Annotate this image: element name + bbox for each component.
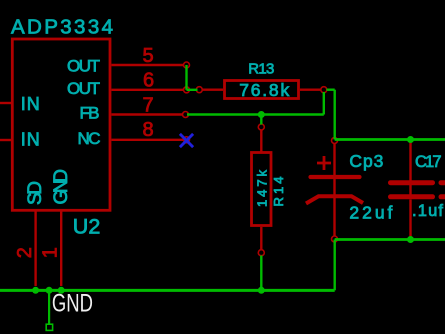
wire junction stub to R14 top — [260, 115, 262, 125]
capacitor Cp3 top plate — [311, 175, 360, 179]
capacitor Cp3 top lead — [333, 144, 335, 197]
capacitor C17 top lead — [409, 140, 411, 197]
junction gnd stem at rail — [46, 287, 53, 294]
wire cap top rail — [335, 138, 445, 141]
junction FB/R14 — [258, 111, 265, 118]
svg-text:U2: U2 — [73, 215, 100, 239]
resistor R13 right lead circle — [321, 87, 327, 93]
resistor R13 left lead — [202, 88, 223, 90]
pin 6 OUT line — [112, 89, 185, 91]
pin 6 end circle — [184, 87, 190, 93]
pin 5 end circle — [184, 62, 190, 68]
svg-text:Cp3: Cp3 — [349, 151, 383, 171]
wire bottom right rail — [335, 238, 445, 241]
svg-text:R13: R13 — [248, 61, 274, 78]
resistor R14 bottom lead circle — [258, 250, 264, 256]
wire FB up to R13 right — [323, 92, 325, 115]
svg-text:5: 5 — [142, 45, 153, 67]
svg-text:ADP3334: ADP3334 — [11, 16, 113, 39]
capacitor C17 top plate — [391, 180, 433, 185]
svg-text:C17: C17 — [415, 153, 442, 171]
resistor R13 body — [225, 81, 299, 99]
svg-text:OUT: OUT — [67, 57, 100, 76]
wire down to cap rail — [334, 90, 336, 140]
pin 8 NC line — [112, 139, 185, 141]
junction pin2 at rail — [32, 287, 39, 294]
svg-text:7: 7 — [142, 95, 153, 117]
resistor R14 top lead circle — [258, 124, 264, 130]
no-connect X on pin 8 — [180, 134, 193, 147]
svg-text:2: 2 — [14, 247, 36, 258]
capacitor Cp3 bottom curved plate — [306, 196, 363, 203]
wire ground stem — [48, 290, 50, 324]
svg-text:FB: FB — [80, 104, 100, 123]
capacitor Cp3 top lead circle — [332, 138, 338, 144]
pin 2 SD line — [34, 211, 36, 286]
wire pin5 to pin6 vertical — [185, 65, 187, 90]
svg-text:GND: GND — [51, 169, 72, 205]
pin 1 GND line — [60, 211, 62, 286]
wire R13 right to down corner — [327, 88, 335, 90]
svg-text:IN: IN — [21, 130, 40, 150]
junction R14 bottom at rail — [258, 287, 265, 294]
resistor R14 top lead — [260, 130, 262, 152]
svg-text:6: 6 — [143, 70, 154, 92]
svg-text:NC: NC — [78, 129, 101, 148]
resistor R13 right lead — [300, 88, 321, 90]
pin 7 FB line — [112, 113, 184, 115]
wire FB horizontal — [187, 113, 324, 115]
svg-text:SD: SD — [25, 181, 46, 205]
svg-text:GND: GND — [52, 289, 93, 317]
svg-text:1: 1 — [40, 247, 62, 258]
ground dangling end square — [46, 324, 52, 330]
capacitor C17 bottom plate — [391, 194, 433, 199]
wire bottom rail left — [0, 289, 335, 292]
pin IN lower line — [0, 139, 12, 141]
svg-text:76.8k: 76.8k — [239, 80, 289, 100]
resistor R14 bottom lead — [260, 227, 262, 250]
junction C17 bottom — [407, 236, 414, 243]
resistor R14 body — [252, 153, 272, 226]
capacitor cut off at right edge bottom plate — [441, 194, 445, 199]
pin 8 end circle — [184, 137, 190, 143]
capacitor cut off at right edge top plate — [441, 180, 445, 185]
svg-text:OUT: OUT — [67, 79, 100, 98]
junction pin1 at rail — [58, 287, 65, 294]
pin IN upper line — [0, 102, 12, 104]
resistor R13 left lead circle — [196, 87, 202, 93]
wire R14 bottom to rail — [260, 256, 262, 291]
pin 7 end circle — [183, 112, 189, 118]
IC U2 body — [12, 39, 110, 210]
svg-text:IN: IN — [21, 94, 40, 114]
wire bottom rail riser — [334, 240, 336, 291]
wire pin6 to R13 — [187, 89, 198, 91]
junction C17 top — [407, 136, 414, 143]
capacitor C17 bottom lead — [409, 200, 411, 240]
svg-text:R14: R14 — [271, 177, 286, 207]
capacitor Cp3 bottom lead circle — [332, 236, 338, 242]
pin 5 OUT line — [112, 64, 185, 66]
Cp3 plus sign — [317, 156, 331, 170]
capacitor Cp3 bottom lead — [333, 198, 335, 236]
svg-text:8: 8 — [142, 119, 153, 141]
